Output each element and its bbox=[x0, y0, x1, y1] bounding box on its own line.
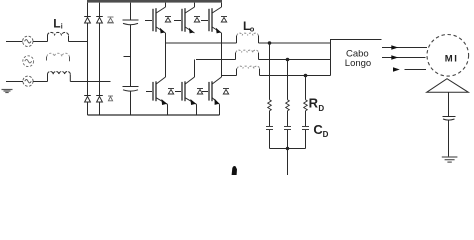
wire gate stub S2 bbox=[174, 20, 181, 22]
wire DC link bottom bbox=[130, 91, 132, 115]
wire phase A input stub bbox=[6, 41, 23, 43]
wire gate stub S5 bbox=[175, 91, 181, 93]
wire phase B to cable bbox=[259, 59, 331, 61]
capacitor motor frame parasitic bbox=[443, 117, 456, 121]
transistor S3 (top IGBT leg C) bbox=[209, 3, 222, 34]
wire gate stub S6 bbox=[202, 91, 208, 93]
node DC+ top bus bbox=[87, 0, 222, 3]
resistor RD branch C bbox=[304, 100, 308, 111]
inductor Li phase A bbox=[48, 36, 69, 42]
wire gate stub S3 bbox=[201, 20, 208, 22]
wire filter branch C middle bbox=[305, 111, 307, 126]
wire Lc to rectifier leg 3 bbox=[70, 81, 110, 83]
wire DC link top bbox=[130, 3, 132, 20]
resistor RD branch B bbox=[286, 100, 290, 111]
capacitor C1 bbox=[123, 20, 139, 25]
diode D2 bbox=[96, 17, 103, 24]
inductor Lo phase C bbox=[236, 69, 238, 76]
wire emitter S5 to bus bbox=[196, 104, 198, 115]
node tap C bbox=[304, 74, 308, 78]
wire gate stub S4 bbox=[146, 91, 152, 93]
cable box (Cabo Longo) bbox=[331, 40, 382, 76]
svg-text:i: i bbox=[61, 24, 63, 31]
wire motor frame bbox=[448, 92, 450, 116]
wire DC link middle bbox=[130, 24, 132, 86]
transistor S2 (top IGBT leg B) bbox=[182, 3, 195, 34]
wire filter to ground bbox=[287, 149, 289, 176]
wire filter branch C upper bbox=[305, 76, 307, 100]
node tap B bbox=[286, 58, 290, 62]
caption fragment bbox=[232, 166, 237, 175]
wire cable to motor phase 3 bbox=[393, 67, 400, 72]
svg-text:o: o bbox=[250, 25, 255, 34]
wire Li to rectifier leg 1 bbox=[69, 41, 88, 43]
wire filter branch A upper bbox=[269, 43, 271, 100]
wire rectifier leg1 bottom bbox=[87, 102, 89, 115]
transistor S6 (bottom IGBT leg C) bbox=[209, 77, 222, 105]
svg-text:R: R bbox=[309, 95, 319, 110]
wire rectifier leg2 middle bbox=[99, 23, 101, 95]
wire filter branch B lower bbox=[287, 130, 289, 149]
wire rectifier leg2 bottom bbox=[99, 102, 101, 115]
inductor phase C bbox=[48, 75, 71, 82]
svg-text:D: D bbox=[318, 104, 324, 113]
node filter star point bbox=[286, 147, 289, 150]
wire leg C vertical bbox=[221, 33, 223, 77]
capacitor CD branch B bbox=[284, 127, 291, 130]
capacitor CD branch A bbox=[266, 127, 273, 130]
wire V3 to Lc bbox=[33, 81, 47, 83]
motor mount bbox=[427, 79, 469, 93]
wire filter branch B middle bbox=[287, 111, 289, 126]
ac source V1 bbox=[23, 36, 33, 46]
wire filter tie bar bbox=[270, 148, 306, 150]
ac source V2 bbox=[23, 56, 34, 67]
transistor S1 (top IGBT leg A) bbox=[153, 3, 166, 34]
wire cable to motor phase 2 bbox=[382, 57, 426, 59]
wire filter branch B upper bbox=[287, 60, 289, 100]
inductor Lo phase B bbox=[235, 53, 237, 60]
wire emitter S4 to bus bbox=[167, 104, 169, 115]
diode antiparallel S3 bbox=[221, 17, 227, 23]
wire inverter phase A output bbox=[166, 42, 237, 44]
capacitor CD branch C bbox=[302, 127, 309, 130]
diode D4 bbox=[84, 96, 91, 103]
wire inverter phase B output bbox=[196, 59, 236, 61]
wire phase C input stub bbox=[6, 81, 23, 83]
transistor S4 (bottom IGBT leg A) bbox=[153, 77, 168, 105]
ground mains bbox=[2, 90, 13, 93]
wire rectifier leg1 middle bbox=[87, 23, 89, 95]
diode antiparallel S4 bbox=[168, 89, 174, 95]
capacitor C2 bbox=[123, 87, 139, 92]
wire leg A vertical bbox=[165, 33, 167, 77]
ground motor bbox=[442, 157, 458, 162]
wire V1 to Li bbox=[33, 41, 47, 43]
diode D1 bbox=[84, 17, 91, 24]
resistor RD branch A bbox=[268, 100, 272, 111]
wire emitter S6 to bus bbox=[219, 104, 221, 115]
wire filter branch A middle bbox=[269, 111, 271, 126]
inductor phase B (faint) bbox=[46, 57, 48, 61]
wire phase A to cable bbox=[259, 42, 331, 44]
diode D5 bbox=[96, 96, 103, 103]
transistor S5 (bottom IGBT leg B) bbox=[182, 60, 197, 106]
svg-text:Longo: Longo bbox=[345, 58, 371, 69]
diode D3 bbox=[107, 17, 114, 23]
diode D6 bbox=[108, 96, 113, 101]
node DC- bottom bus bbox=[88, 114, 220, 116]
motor MI bbox=[427, 35, 469, 77]
svg-text:D: D bbox=[323, 130, 329, 139]
diode antiparallel S2 bbox=[194, 17, 200, 23]
wire filter branch C lower bbox=[305, 130, 307, 149]
wire DC midpoint stub bbox=[124, 56, 131, 58]
wire rectifier leg1 top bbox=[87, 3, 89, 16]
wire gate stub S1 bbox=[145, 20, 152, 22]
diode antiparallel S5 bbox=[197, 89, 203, 95]
wire cable to motor phase 1 bbox=[382, 47, 427, 49]
wire frame cap to ground bbox=[448, 120, 450, 157]
wire filter branch A lower bbox=[269, 130, 271, 149]
wire phase C to cable bbox=[260, 75, 331, 77]
wire rectifier leg2 top bbox=[99, 3, 101, 16]
diode antiparallel S1 bbox=[165, 17, 171, 23]
wire inverter phase C output bbox=[222, 75, 237, 77]
node tap A bbox=[268, 41, 272, 45]
svg-text:MI: MI bbox=[445, 53, 459, 64]
diode antiparallel S6 bbox=[223, 89, 229, 95]
inductor Lo phase A bbox=[236, 36, 238, 44]
svg-text:L: L bbox=[53, 16, 60, 30]
ac source V3 bbox=[23, 76, 33, 86]
